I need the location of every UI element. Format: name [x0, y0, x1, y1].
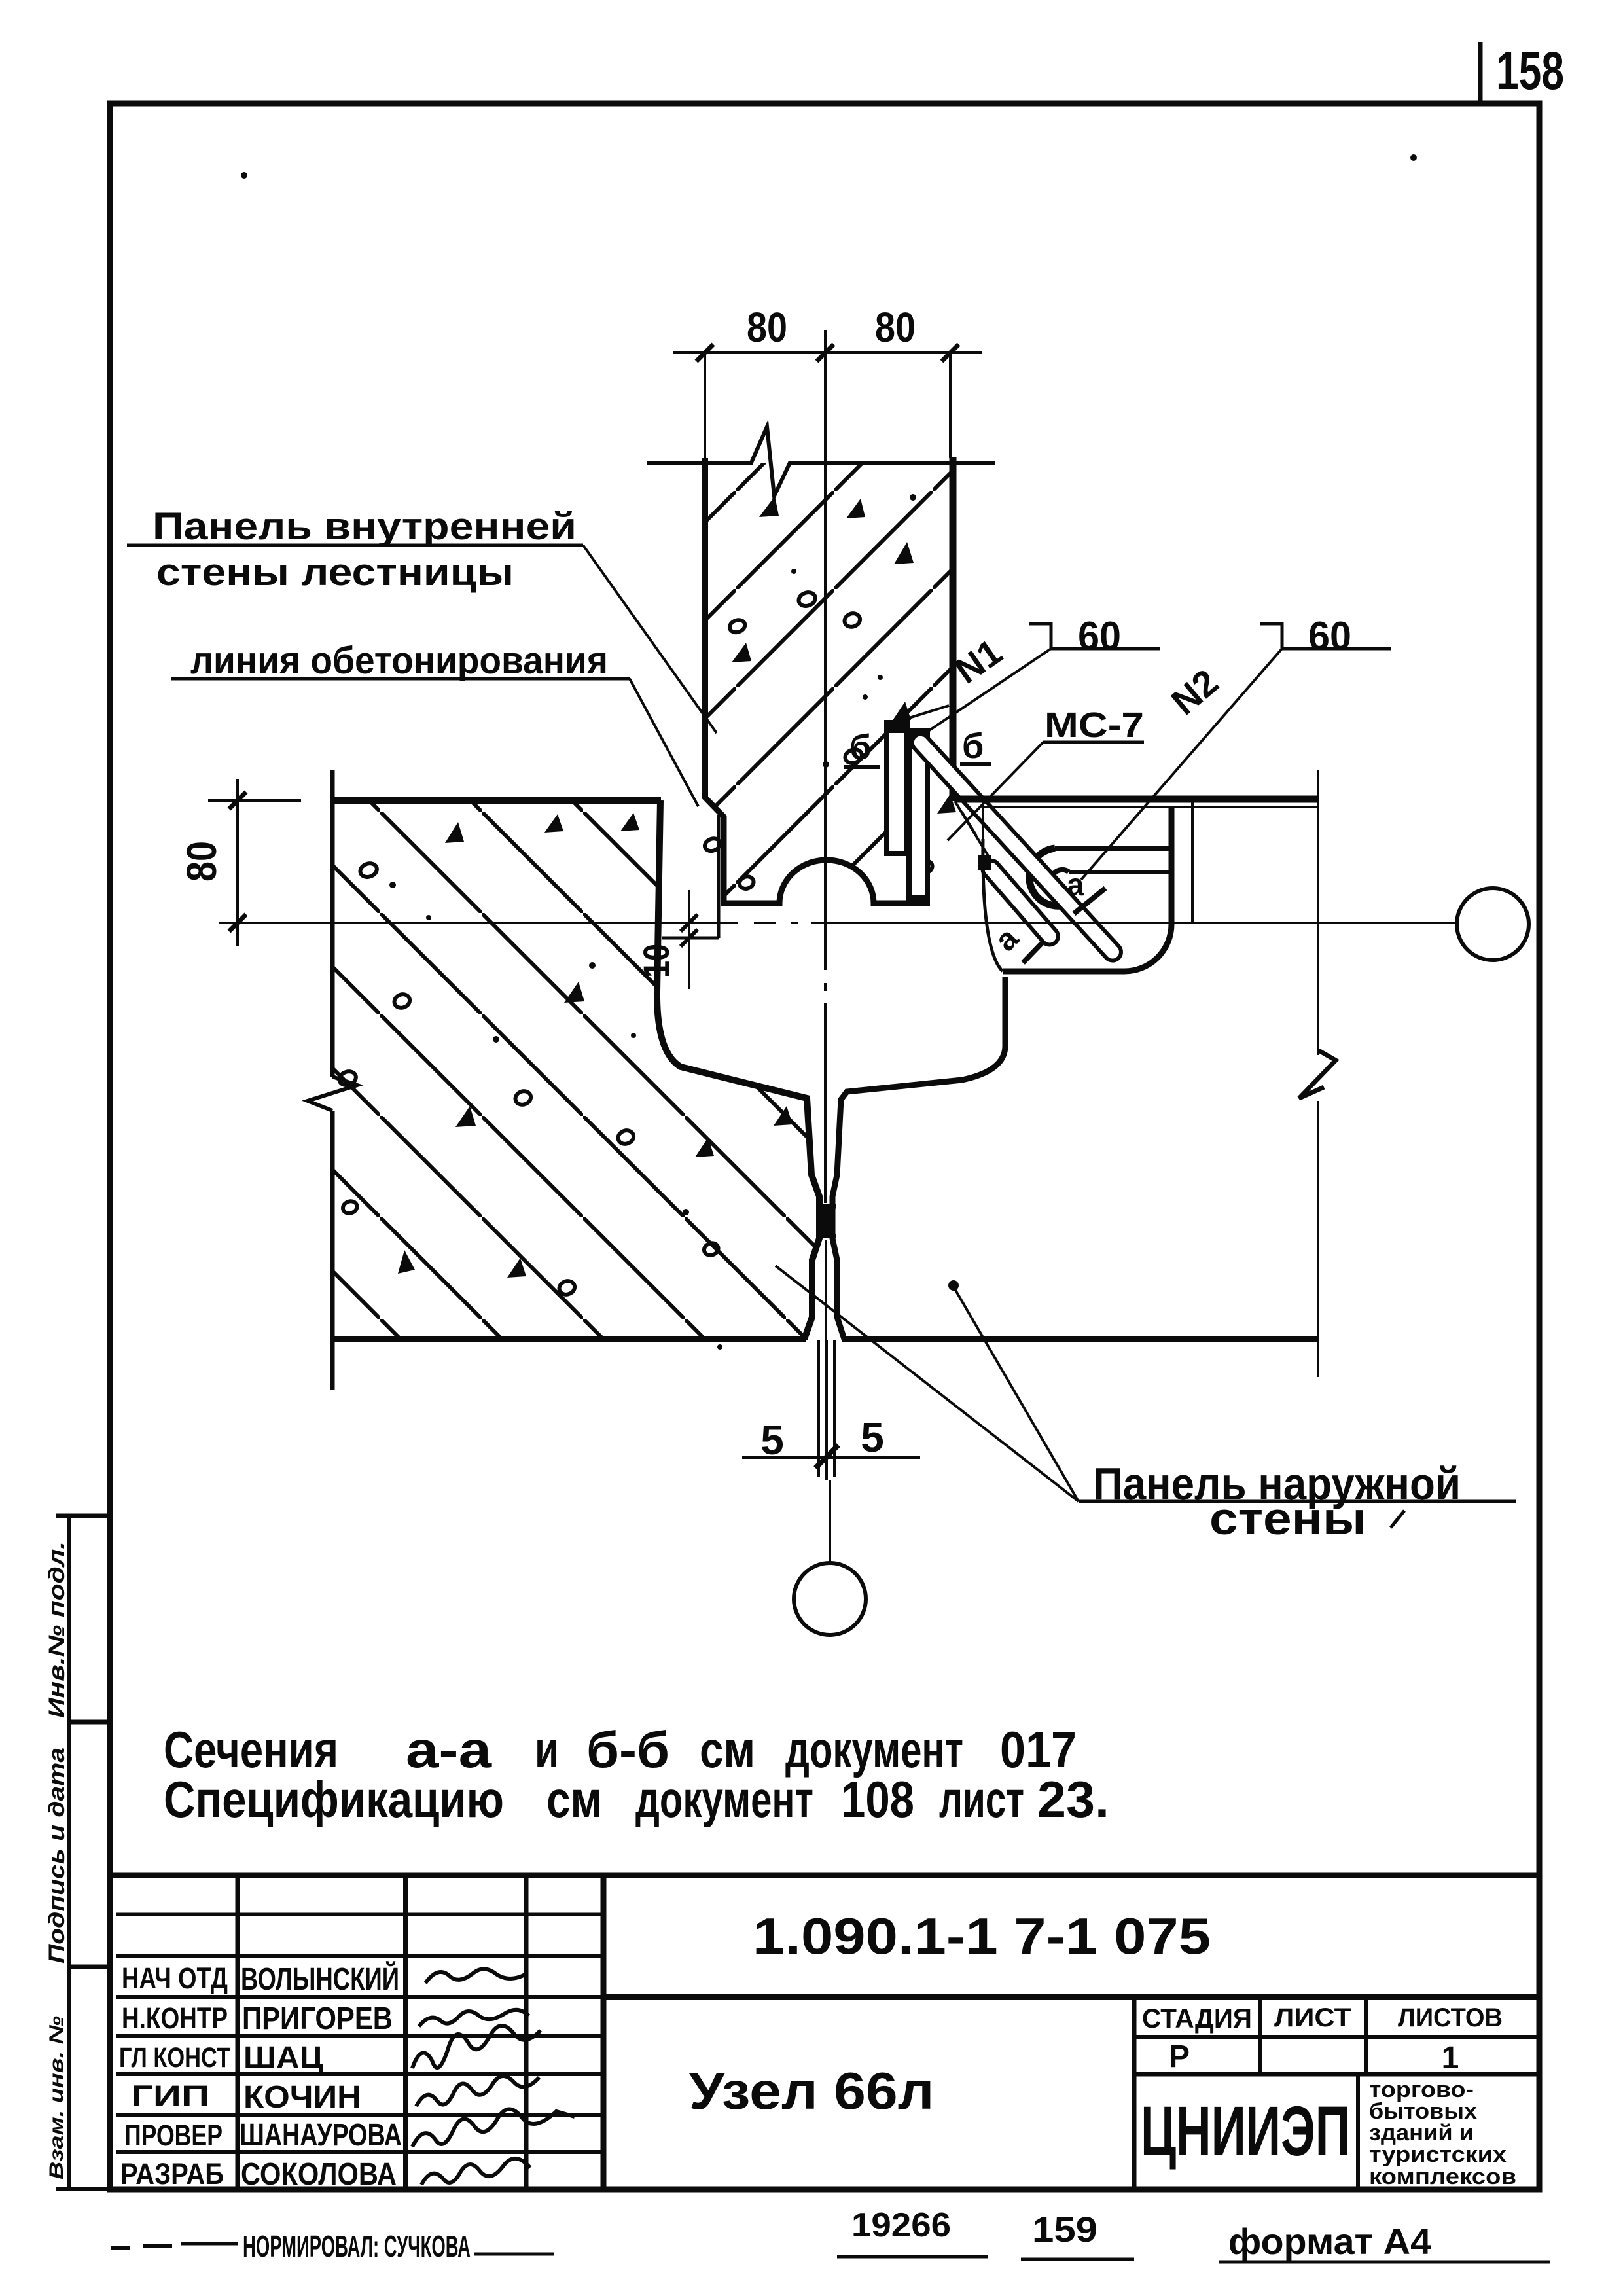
svg-text:ПРОВЕР: ПРОВЕР: [124, 2119, 223, 2152]
top 80|80 dimension: [673, 351, 982, 354]
svg-text:линия обетонирования: линия обетонирования: [190, 639, 608, 682]
wall face extension line with break: [1317, 770, 1319, 1055]
joint gap lines below panels: [819, 1340, 834, 1480]
svg-text:б: б: [849, 728, 871, 767]
svg-text:Панель внутренней: Панель внутренней: [152, 505, 577, 548]
page number 158: [1478, 42, 1483, 105]
svg-text:ПРИГОРЕВ: ПРИГОРЕВ: [242, 2001, 393, 2036]
svg-text:Инв.№ подл.: Инв.№ подл.: [45, 1541, 69, 1718]
bottom tongue with semicircular notch: [721, 860, 930, 903]
svg-text:см: см: [700, 1721, 755, 1778]
connection plates: [887, 723, 927, 898]
svg-text:5: 5: [760, 1416, 784, 1463]
label: outer wall panel: [1093, 1458, 1461, 1544]
svg-text:23.: 23.: [1037, 1770, 1109, 1828]
svg-text:туристских: туристских: [1369, 2142, 1507, 2167]
aggregate marks left panel: [339, 813, 793, 1295]
svg-text:стены лестницы: стены лестницы: [156, 551, 514, 594]
svg-text:Взам. инв. №: Взам. инв. №: [46, 2016, 67, 2179]
svg-text:Спецификацию: Спецификацию: [164, 1770, 504, 1828]
outlines: vertical panel: [647, 353, 995, 905]
svg-text:ЛИСТОВ: ЛИСТОВ: [1398, 2003, 1503, 2032]
svg-text:80: 80: [875, 304, 916, 351]
top border of title block: [113, 1873, 1537, 1878]
top break line: [647, 427, 995, 496]
svg-text:РАЗРАБ: РАЗРАБ: [120, 2157, 224, 2191]
middle / right dividers: [603, 1994, 1537, 2000]
stray scan dots: [241, 172, 247, 179]
svg-text:лист: лист: [939, 1770, 1024, 1828]
left area verticals: [236, 1875, 240, 2189]
svg-text:1: 1: [1442, 2041, 1459, 2075]
svg-text:ШАЦ: ШАЦ: [243, 2041, 323, 2075]
svg-text:Н.КОНТР: Н.КОНТР: [122, 2001, 228, 2035]
aggregate marks vertical panel: [705, 494, 956, 889]
svg-text:Р: Р: [1169, 2039, 1190, 2074]
svg-text:10: 10: [635, 944, 677, 978]
upper right panel: [955, 799, 1318, 971]
svg-text:а-а: а-а: [406, 1721, 492, 1778]
svg-text:б-б: б-б: [586, 1721, 669, 1778]
hatched body: left floor-level panel: [332, 800, 819, 1339]
svg-text:Узел 66л: Узел 66л: [689, 2062, 935, 2120]
svg-text:документ: документ: [635, 1770, 813, 1828]
60 dimension #2 with leader N2: [1282, 647, 1391, 651]
anchor loop MC-7: [1029, 848, 1171, 906]
left area row lines: [116, 1913, 603, 1916]
svg-text:159: 159: [1032, 2210, 1097, 2250]
signatures: [412, 1969, 575, 2185]
svg-text:ЛИСТ: ЛИСТ: [1274, 2003, 1351, 2032]
texts: [119, 1907, 1516, 2192]
diagonal ties: [908, 730, 1124, 964]
outlines: left panel: [308, 770, 819, 1390]
svg-text:1.090.1-1 7-1 075: 1.090.1-1 7-1 075: [753, 1907, 1211, 1965]
svg-text:Подпись и дата: Подпись и дата: [45, 1748, 69, 1964]
svg-text:документ: документ: [785, 1721, 963, 1778]
label: inner stair wall panel: [152, 505, 577, 594]
svg-text:60: 60: [1308, 614, 1351, 659]
joint sealant blob: [818, 1204, 836, 1238]
svg-text:80: 80: [747, 304, 787, 351]
svg-text:ВОЛЫНСКИЙ: ВОЛЫНСКИЙ: [241, 1961, 399, 1997]
bottom border: [110, 2187, 1539, 2193]
5|5 dimension: [742, 1456, 920, 1459]
svg-text:СОКОЛОВА: СОКОЛОВА: [241, 2157, 397, 2192]
svg-text:158: 158: [1496, 41, 1564, 101]
svg-text:60: 60: [1078, 614, 1121, 659]
svg-text:НАЧ ОТД: НАЧ ОТД: [122, 1962, 228, 1995]
svg-text:19266: 19266: [851, 2206, 951, 2244]
svg-text:КОЧИН: КОЧИН: [243, 2080, 361, 2115]
section marks а-а: [988, 868, 1084, 958]
svg-text:ГЛ КОНСТ: ГЛ КОНСТ: [119, 2042, 230, 2073]
hatched body: inner stair wall panel (vertical): [705, 463, 950, 903]
svg-text:5: 5: [861, 1414, 884, 1461]
svg-text:б: б: [962, 726, 984, 766]
svg-text:а: а: [1067, 868, 1084, 903]
svg-text:ГИП: ГИП: [131, 2079, 209, 2113]
svg-text:МС-7: МС-7: [1044, 706, 1144, 745]
10 dimension: [688, 890, 690, 989]
svg-text:см: см: [546, 1770, 602, 1828]
recess / concreting lines: [662, 937, 719, 940]
svg-text:и: и: [535, 1721, 559, 1778]
axis centerlines: [219, 330, 1457, 1563]
svg-text:Сечения: Сечения: [164, 1721, 338, 1778]
left 80 dimension: [236, 779, 239, 946]
60 dimension #1 with leader N1: [1051, 647, 1160, 651]
svg-text:108: 108: [841, 1770, 914, 1828]
lower right panel: [832, 770, 1336, 1377]
svg-text:017: 017: [1000, 1721, 1077, 1778]
svg-text:НОРМИРОВАЛ: СУЧКОВА: НОРМИРОВАЛ: СУЧКОВА: [243, 2229, 471, 2263]
svg-text:ЦНИИЭП: ЦНИИЭП: [1141, 2091, 1350, 2170]
axis circles: [1457, 888, 1529, 960]
svg-text:комплексов: комплексов: [1369, 2164, 1516, 2189]
svg-text:ШАНАУРОВА: ШАНАУРОВА: [240, 2118, 402, 2153]
svg-text:80: 80: [178, 841, 225, 882]
section marks б-б: [849, 726, 984, 767]
svg-text:СТАДИЯ: СТАДИЯ: [1142, 2003, 1252, 2034]
svg-text:формат А4: формат А4: [1228, 2221, 1431, 2262]
top-right chamfer line: [888, 706, 949, 725]
